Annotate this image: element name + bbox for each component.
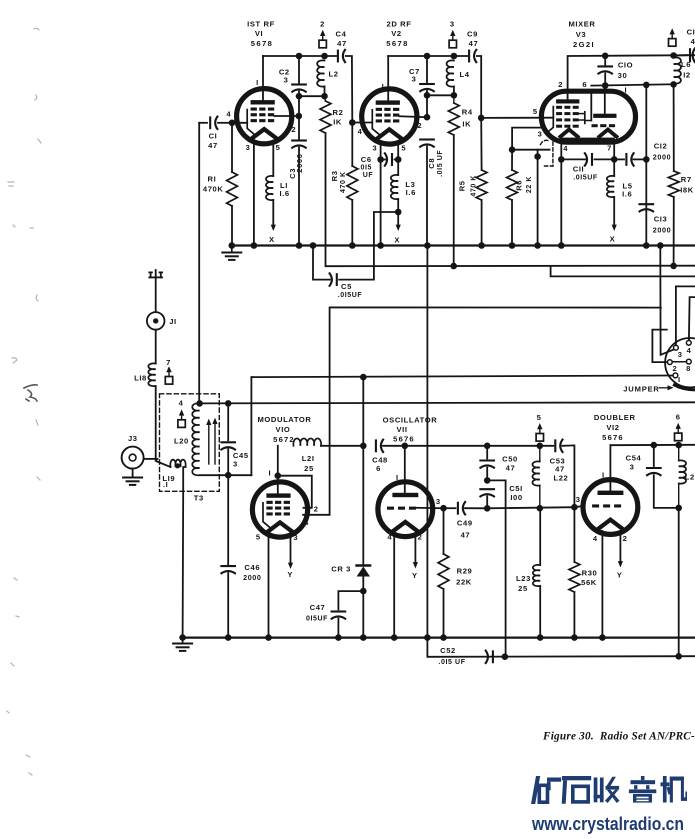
svg-text:2: 2: [320, 20, 325, 29]
svg-text:2000: 2000: [653, 226, 671, 235]
svg-text:V3: V3: [576, 30, 587, 39]
wire antenna line long horizontal: [200, 402, 695, 403]
test point 5: [536, 413, 543, 441]
svg-text:OSCILLATOR: OSCILLATOR: [383, 416, 438, 425]
wire C52 output line: [427, 638, 695, 657]
svg-text:.0I5UF: .0I5UF: [338, 292, 363, 299]
svg-text:C8: C8: [427, 158, 436, 169]
svg-text:2: 2: [417, 121, 422, 130]
svg-text:2D RF: 2D RF: [387, 20, 412, 29]
svg-text:DOUBLER: DOUBLER: [594, 413, 636, 422]
inductor L18: [134, 330, 156, 386]
svg-text:VI: VI: [255, 29, 263, 38]
wire V11 pin2 arrow Y: [412, 533, 418, 580]
wire V10 pin3 arrow Y: [287, 534, 293, 580]
wire V3 plate line: [568, 52, 695, 91]
wire T3 secondary bottom: [200, 474, 252, 476]
capacitor C46: [221, 475, 261, 641]
test point 4: [178, 398, 185, 427]
svg-text:2: 2: [314, 505, 319, 514]
svg-text:3: 3: [678, 350, 683, 359]
svg-text:7: 7: [607, 144, 612, 153]
scan artifacts left edge: [7, 28, 41, 775]
svg-text:4: 4: [179, 398, 184, 407]
svg-text:3: 3: [576, 495, 581, 504]
tube V2 5678 2d RF pentode: [352, 56, 427, 152]
tube V12 5676 doubler triode: [574, 445, 637, 543]
transformer T3 box dashed: [160, 394, 220, 503]
svg-text:I: I: [268, 468, 271, 477]
watermark crystalradio logo: [531, 776, 687, 834]
svg-text:3: 3: [246, 143, 251, 152]
svg-text:LI8: LI8: [134, 374, 147, 383]
resistor R29: [438, 505, 472, 641]
test point 6: [675, 413, 682, 441]
svg-text:MIXER: MIXER: [568, 20, 595, 29]
svg-text:RI: RI: [208, 175, 217, 184]
wire V12 pin2 arrow Y: [617, 531, 623, 580]
resistor R7: [668, 84, 693, 269]
svg-text:3: 3: [372, 143, 377, 152]
capacitor C3: [288, 116, 306, 249]
svg-text:J3: J3: [128, 434, 138, 443]
svg-text:3: 3: [450, 20, 455, 29]
wire oscillator grid line: [487, 505, 574, 512]
wire socket pin4 up: [689, 297, 695, 340]
capacitor C9: [467, 30, 478, 63]
svg-text:22 K: 22 K: [526, 176, 533, 193]
resistor R3: [330, 123, 358, 249]
wire ground bus lower: [181, 636, 695, 638]
inductor L20 secondary: [174, 400, 203, 475]
wire ground drop C8 column to lower bus: [424, 242, 431, 641]
svg-text:JUMPER: JUMPER: [623, 384, 659, 393]
svg-text:Y: Y: [287, 570, 293, 579]
svg-text:CIO: CIO: [618, 61, 633, 70]
svg-text:L2I: L2I: [302, 454, 315, 463]
svg-text:IK: IK: [462, 120, 471, 129]
resistor R1: [203, 123, 237, 246]
svg-text:47: 47: [461, 531, 471, 540]
svg-text:.I: .I: [163, 480, 168, 489]
capacitor C4: [336, 30, 347, 63]
capacitor C52: [438, 646, 492, 666]
svg-text:R29: R29: [457, 567, 473, 576]
wire socket pin3 up: [676, 286, 695, 345]
svg-text:CR 3: CR 3: [331, 565, 351, 574]
svg-text:2: 2: [291, 125, 296, 134]
svg-text:25: 25: [518, 584, 528, 593]
svg-text:C50: C50: [502, 454, 518, 463]
svg-text:470 K: 470 K: [340, 171, 347, 193]
label V11 title: [383, 416, 438, 444]
jumper strap: [675, 385, 695, 390]
wire L19 to lower bus: [182, 491, 185, 637]
test point top right: [669, 28, 676, 46]
svg-text:R6: R6: [515, 180, 524, 191]
svg-text:VI2: VI2: [606, 423, 619, 432]
svg-text:2000: 2000: [295, 153, 304, 172]
connector J3: [122, 434, 158, 485]
svg-text:I2: I2: [683, 70, 691, 79]
svg-text:4: 4: [358, 127, 363, 136]
svg-text:T3: T3: [194, 494, 204, 503]
svg-text:4: 4: [304, 518, 309, 527]
inductor L19 primary: [156, 460, 186, 492]
tuning arrows T3: [206, 418, 217, 464]
svg-text:4: 4: [226, 110, 231, 119]
inductor L23: [516, 508, 543, 641]
shield dashed: [541, 140, 553, 166]
svg-text:UF: UF: [363, 172, 374, 179]
svg-text:3: 3: [630, 463, 635, 472]
svg-text:5: 5: [401, 143, 406, 152]
svg-text:I: I: [382, 82, 385, 91]
wire V3 grid pin5 line: [481, 117, 553, 119]
svg-text:5: 5: [537, 413, 542, 422]
wire V11 pin4 to bus: [391, 533, 398, 641]
label V12 title: [594, 413, 636, 442]
svg-text:R30: R30: [582, 569, 598, 578]
svg-text:6: 6: [676, 413, 681, 422]
svg-text:C6: C6: [361, 155, 372, 164]
svg-text:C47: C47: [310, 603, 326, 612]
wire V2 pin3 to bus: [377, 141, 384, 249]
svg-text:I00: I00: [510, 493, 522, 502]
test point 3: [449, 20, 456, 48]
inductor L21: [293, 438, 363, 473]
wire V11 plate line: [405, 443, 554, 450]
wire V1 plate line: [263, 53, 337, 60]
svg-text:C52: C52: [440, 646, 456, 655]
test point 7: [165, 358, 172, 384]
svg-text:R7: R7: [681, 175, 692, 184]
svg-text:3: 3: [233, 459, 238, 468]
capacitor C5: [310, 212, 399, 299]
capacitor C47: [306, 591, 363, 641]
svg-text:I8K: I8K: [680, 185, 694, 194]
node X filament V2: [394, 236, 400, 245]
svg-text:5676: 5676: [602, 433, 624, 442]
svg-text:CI: CI: [209, 132, 218, 141]
svg-text:CI: CI: [687, 28, 695, 37]
svg-text:56K: 56K: [581, 578, 597, 587]
svg-text:C5: C5: [341, 282, 352, 291]
svg-text:V2: V2: [391, 29, 402, 38]
svg-text:3: 3: [538, 130, 543, 139]
tube V1 5678 1st RF pentode: [226, 56, 298, 152]
wire B+ branch rail: [551, 266, 695, 276]
svg-text:5: 5: [533, 107, 538, 116]
svg-text:L22: L22: [554, 474, 569, 483]
svg-text:3: 3: [293, 533, 298, 542]
svg-text:5678: 5678: [386, 39, 409, 48]
svg-text:R5: R5: [458, 180, 467, 191]
svg-text:5678: 5678: [251, 39, 274, 48]
svg-text:Figure 30. Radio Set AN/PRC-: Figure 30. Radio Set AN/PRC-: [542, 731, 695, 743]
svg-text:R3: R3: [330, 170, 339, 181]
svg-text:C49: C49: [457, 519, 473, 528]
svg-text:4: 4: [593, 534, 598, 543]
capacitor C45: [221, 400, 248, 478]
resistor R5: [458, 118, 487, 249]
connector J1: [147, 312, 177, 330]
capacitor C10: [598, 56, 633, 86]
capacitor C6: [358, 153, 402, 179]
wire V12 pin4 to bus: [599, 531, 606, 641]
svg-text:L20: L20: [174, 436, 189, 445]
svg-text:4: 4: [563, 144, 568, 153]
svg-text:I: I: [678, 375, 681, 384]
wire V2 plate line: [388, 53, 468, 60]
wire V3 pin3 shielded lead: [509, 128, 550, 153]
svg-text:25: 25: [304, 464, 314, 473]
svg-text:L23: L23: [516, 574, 531, 583]
capacitor C7: [409, 56, 434, 120]
svg-text:.0I5UF: .0I5UF: [573, 175, 598, 182]
label V3 title: [568, 20, 595, 50]
svg-text:X: X: [394, 236, 400, 245]
wire L24 column to C52 line: [675, 508, 682, 660]
svg-text:R4: R4: [462, 108, 473, 117]
svg-text:47: 47: [555, 464, 565, 473]
svg-text:2: 2: [558, 80, 563, 89]
svg-text:47: 47: [506, 463, 516, 472]
svg-text:C9: C9: [467, 30, 478, 39]
svg-text:R2: R2: [333, 108, 344, 117]
svg-text:2: 2: [672, 364, 677, 373]
svg-text:C5I: C5I: [509, 484, 523, 493]
ground: [173, 634, 192, 651]
svg-text:X: X: [610, 235, 616, 244]
svg-text:IK: IK: [333, 118, 342, 127]
inductor L5: [607, 141, 633, 231]
wire C9 to V3 grid corner: [477, 56, 485, 121]
capacitor C2: [279, 56, 306, 119]
inductor L6: [670, 56, 691, 88]
capacitor C8: [420, 140, 444, 246]
svg-text:470 K: 470 K: [470, 175, 477, 197]
svg-text:I: I: [602, 471, 605, 480]
svg-text:L4: L4: [459, 70, 469, 79]
node X filament V3: [610, 235, 616, 244]
svg-text:2G2I: 2G2I: [573, 40, 595, 49]
inductor L22: [532, 446, 568, 508]
inductor L1: [266, 141, 290, 231]
svg-text:Y: Y: [412, 571, 418, 580]
svg-text:5672: 5672: [273, 435, 295, 444]
capacitor C14: [674, 28, 695, 63]
wire V12 plate line: [610, 442, 695, 449]
svg-text:I.6: I.6: [406, 188, 416, 197]
wire C51 branch to C52 line: [487, 480, 508, 660]
svg-text:5676: 5676: [393, 435, 415, 444]
svg-text:www.crystalradio.cn: www.crystalradio.cn: [531, 813, 684, 834]
capacitor C53: [550, 440, 578, 511]
wire socket pin2 loop: [652, 330, 667, 363]
svg-text:8: 8: [686, 364, 691, 373]
svg-text:22K: 22K: [456, 578, 472, 587]
svg-text:MODULATOR: MODULATOR: [257, 415, 311, 424]
label V10 title: [257, 415, 311, 444]
svg-text:I: I: [396, 473, 399, 482]
svg-text:2000: 2000: [653, 153, 671, 162]
svg-text:C4: C4: [336, 30, 347, 39]
svg-text:7: 7: [166, 358, 171, 367]
label V2 title: [386, 20, 411, 49]
antenna: [149, 270, 162, 312]
svg-text:47: 47: [469, 39, 479, 48]
svg-text:5: 5: [256, 532, 261, 541]
tube V10 5672 modulator pentode: [252, 446, 329, 542]
wire C12 column: [643, 85, 650, 249]
svg-text:C54: C54: [626, 454, 642, 463]
inductor L24: [679, 445, 695, 508]
inductor L2: [299, 60, 339, 99]
inductor L4: [427, 60, 470, 98]
wire bias line to V10 grid: [330, 307, 661, 514]
resistor R30: [569, 507, 597, 641]
capacitor C12: [618, 142, 672, 166]
wire screen line pin6: [591, 82, 673, 89]
ground: [222, 242, 241, 260]
svg-text:IST RF: IST RF: [247, 20, 275, 29]
capacitor C11: [561, 153, 617, 181]
wire V3 pin4 to bus: [558, 141, 565, 249]
svg-text:CI2: CI2: [654, 142, 668, 151]
svg-text:47: 47: [337, 39, 347, 48]
svg-text:3: 3: [284, 76, 289, 85]
wire T3 secondary tap vertical: [250, 377, 252, 475]
svg-text:I: I: [624, 86, 627, 95]
wire V1 pin3 to bus: [251, 141, 258, 249]
svg-text:I.6: I.6: [622, 190, 632, 199]
svg-text:6: 6: [582, 80, 587, 89]
svg-text:30: 30: [618, 71, 628, 80]
resistor R2: [320, 96, 343, 133]
capacitor C1: [199, 117, 235, 150]
svg-text:X: X: [269, 235, 275, 244]
test point 2: [319, 20, 326, 48]
wire B+ rail: [326, 133, 695, 266]
wire socket pin2 to pin8: [672, 361, 686, 363]
wire V1 grid column to T3: [198, 123, 200, 404]
capacitor C49: [444, 502, 488, 540]
svg-text:C46: C46: [244, 563, 260, 572]
label V1 title: [247, 20, 275, 49]
svg-text:L24: L24: [685, 473, 695, 482]
diode CR3: [331, 374, 370, 641]
svg-text:CII: CII: [573, 165, 585, 174]
inductor L3: [391, 141, 416, 231]
svg-text:CI3: CI3: [654, 215, 668, 224]
wire ground bus upper: [232, 244, 695, 246]
svg-text:I.6: I.6: [279, 189, 289, 198]
wire L18 to T3 primary: [155, 386, 157, 461]
svg-text:VIO: VIO: [276, 425, 291, 434]
socket J (octal, cut at edge): [665, 338, 695, 387]
capacitor C51: [480, 484, 522, 512]
svg-text:0I5UF: 0I5UF: [306, 616, 328, 623]
svg-text:4: 4: [691, 37, 695, 46]
svg-text:JI: JI: [169, 317, 177, 326]
wire C4 to V2 grid corner: [346, 56, 356, 126]
capacitor C54: [626, 445, 682, 511]
svg-text:.0I5 UF: .0I5 UF: [437, 150, 444, 177]
svg-text:470K: 470K: [203, 185, 224, 194]
tube V3 2G21 mixer: [533, 80, 636, 153]
svg-text:3: 3: [412, 75, 417, 84]
svg-text:2: 2: [418, 533, 423, 542]
caption Figure 30: [542, 731, 695, 743]
label JUMPER with arrow: [623, 384, 673, 393]
capacitor C50: [480, 446, 517, 484]
node X filament V1: [269, 235, 275, 244]
svg-text:.0I5 UF: .0I5 UF: [438, 659, 465, 666]
svg-text:6: 6: [376, 464, 381, 473]
svg-text:2: 2: [623, 534, 628, 543]
svg-text:47: 47: [208, 141, 218, 150]
svg-text:Y: Y: [617, 571, 623, 580]
capacitor C13: [640, 204, 672, 234]
wire V10 pin5 to bus: [265, 534, 272, 641]
svg-text:4: 4: [387, 533, 392, 542]
svg-text:2000: 2000: [243, 573, 261, 582]
wire shield ground drop: [534, 150, 541, 249]
resistor R6: [507, 150, 533, 249]
svg-text:3: 3: [436, 497, 441, 506]
capacitor C48: [372, 440, 408, 473]
svg-text:L2: L2: [328, 70, 338, 79]
tube V11 5676 oscillator triode: [378, 446, 444, 542]
wire socket pin 1 line: [251, 376, 673, 378]
svg-text:5: 5: [276, 143, 281, 152]
svg-text:VII: VII: [396, 425, 407, 434]
svg-text:I: I: [256, 78, 259, 87]
resistor R4: [448, 95, 472, 269]
svg-text:.0I5: .0I5: [358, 165, 372, 172]
wire bus drop to socket pin3: [657, 242, 674, 355]
svg-text:4: 4: [687, 346, 692, 355]
